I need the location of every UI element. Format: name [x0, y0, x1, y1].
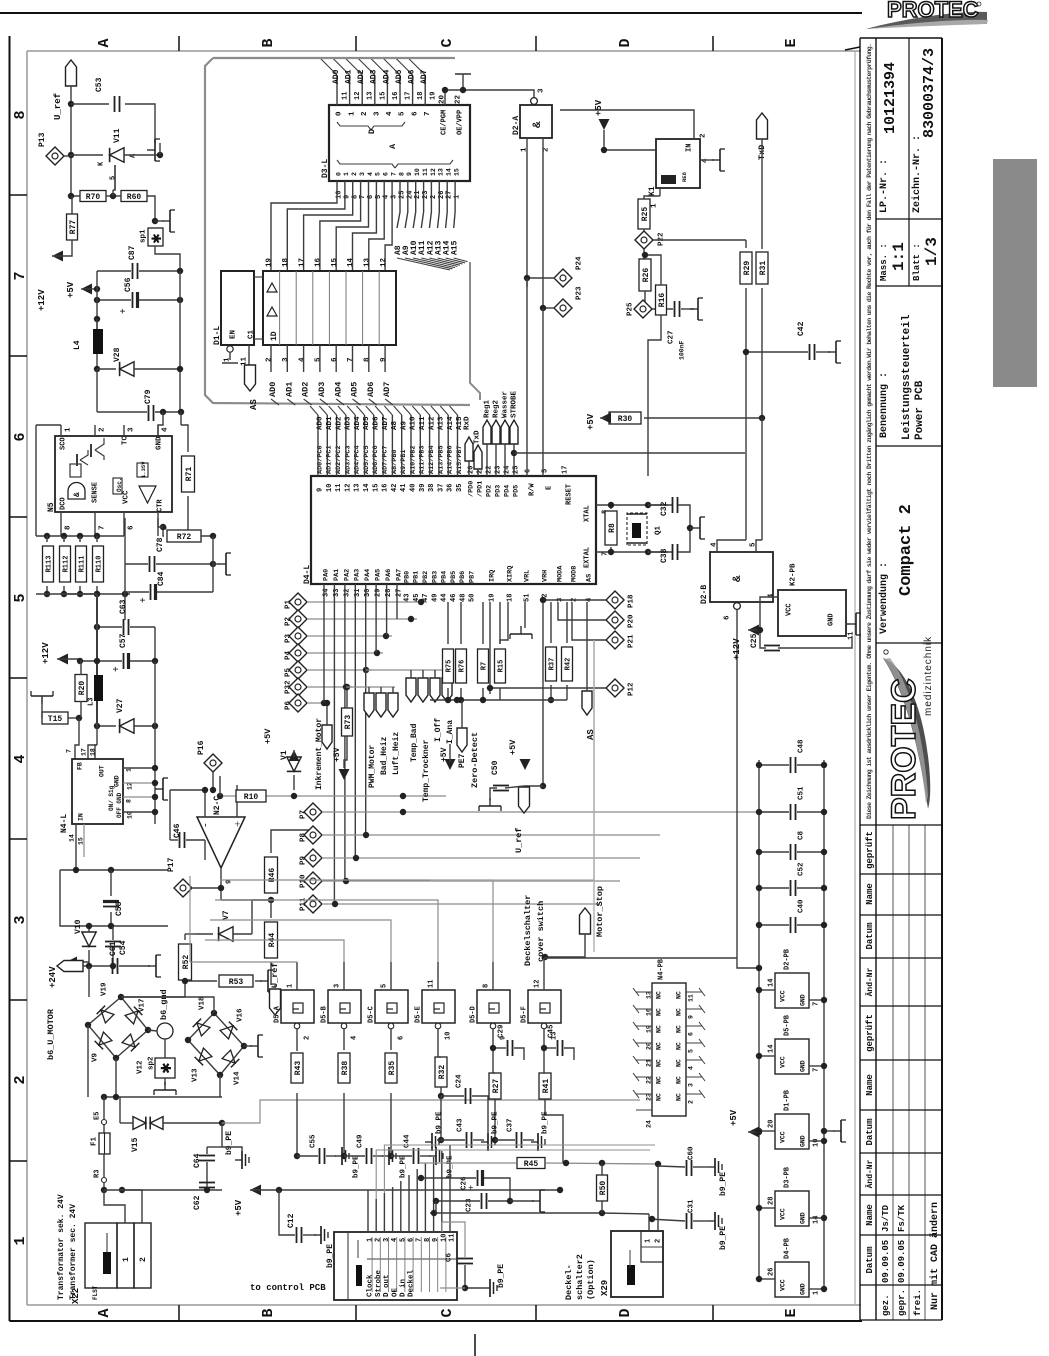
guide	[593, 640, 595, 952]
svg-text:R111: R111	[79, 556, 87, 573]
wire	[482, 688, 484, 700]
wire	[103, 1125, 105, 1133]
wire	[83, 965, 111, 967]
stub	[686, 1042, 702, 1044]
bus entry	[338, 406, 346, 415]
svg-text:2: 2	[687, 1100, 694, 1104]
junction	[152, 765, 158, 771]
svg-text:100nF: 100nF	[678, 340, 685, 360]
test point P8	[304, 826, 322, 844]
wire	[447, 432, 449, 476]
nc tick	[633, 988, 639, 996]
capacitor C48	[791, 757, 796, 773]
test point P23	[554, 299, 572, 317]
ground	[828, 341, 841, 363]
wire	[207, 1146, 222, 1148]
junction	[601, 147, 607, 153]
wire	[745, 288, 747, 540]
svg-text:11: 11	[449, 1234, 457, 1242]
wire	[390, 1029, 392, 1050]
wire rail1	[420, 1162, 516, 1164]
svg-text:AD2: AD2	[301, 382, 311, 397]
svg-text:Temp_Bad: Temp_Bad	[410, 723, 419, 762]
wire P4	[307, 652, 383, 654]
svg-text:AD6: AD6	[408, 69, 417, 84]
w	[296, 1050, 298, 1051]
junction	[291, 793, 297, 799]
junction	[418, 1175, 424, 1181]
wire	[761, 288, 763, 418]
wire	[159, 143, 161, 155]
junction	[344, 684, 350, 690]
resistor R25	[638, 199, 650, 229]
svg-text:13: 13	[364, 257, 372, 267]
svg-text:D5-C: D5-C	[368, 1006, 376, 1023]
svg-text:14: 14	[768, 1045, 776, 1053]
svg-text:&: &	[73, 492, 82, 497]
svg-text:R20: R20	[78, 681, 87, 696]
wire	[419, 432, 421, 476]
wire	[490, 699, 567, 701]
wire	[270, 962, 272, 985]
junction	[492, 1137, 498, 1143]
svg-text:2: 2	[700, 133, 708, 138]
wire	[447, 602, 449, 644]
svg-text:A9: A9	[400, 420, 408, 430]
svg-text:R76: R76	[459, 660, 467, 673]
wire	[96, 271, 98, 329]
svg-text:P2: P2	[285, 616, 293, 626]
wire	[401, 432, 403, 476]
svg-text:D: D	[617, 1308, 634, 1317]
wire	[60, 869, 168, 871]
wire	[693, 1166, 708, 1168]
wire	[603, 130, 605, 150]
wire	[123, 767, 155, 769]
wire	[441, 1151, 443, 1213]
wire	[296, 1093, 298, 1156]
wire RESET	[648, 315, 661, 476]
wire	[736, 610, 738, 962]
wire	[657, 1164, 659, 1231]
capacitor C55	[320, 1148, 325, 1164]
svg-text:26: 26	[768, 1268, 776, 1276]
wire	[106, 195, 121, 197]
wire	[120, 1122, 133, 1124]
junction	[511, 450, 517, 456]
svg-text:DCO: DCO	[60, 497, 68, 510]
svg-text:OFF GND: OFF GND	[116, 792, 123, 818]
wire	[542, 308, 544, 476]
svg-text:22: 22	[455, 94, 463, 104]
bus entry	[353, 399, 361, 405]
svg-text:51: 51	[524, 594, 532, 602]
power arrow +24V	[66, 957, 77, 968]
test point P7	[304, 803, 322, 821]
wire	[416, 1213, 418, 1232]
junction	[241, 1043, 247, 1049]
wire	[524, 785, 543, 787]
svg-text:C42: C42	[797, 321, 806, 336]
svg-text:8: 8	[424, 1238, 432, 1242]
ground	[155, 778, 168, 800]
brace	[337, 122, 371, 130]
divider	[420, 1237, 422, 1292]
net flag	[322, 725, 332, 749]
svg-text:37: 37	[437, 484, 445, 492]
wire P2	[307, 618, 417, 620]
svg-text:C54: C54	[119, 940, 128, 955]
wire	[212, 772, 214, 790]
svg-text:6: 6	[687, 1032, 694, 1036]
wire	[461, 700, 463, 728]
svg-text:10: 10	[414, 168, 421, 176]
svg-text:Reg2: Reg2	[493, 399, 501, 418]
test point P1	[289, 593, 307, 611]
wire	[326, 432, 328, 476]
junction	[61, 533, 67, 539]
svg-text:Reg1: Reg1	[484, 399, 492, 418]
wire P3	[307, 635, 392, 637]
svg-text:PD4: PD4	[503, 485, 511, 497]
svg-text:Temp_Trockner: Temp_Trockner	[422, 739, 431, 802]
junction	[68, 101, 74, 107]
wire	[188, 496, 213, 536]
wire	[75, 824, 77, 870]
svg-text:PB4: PB4	[441, 571, 449, 583]
junction	[152, 658, 158, 664]
svg-text:B: B	[260, 38, 277, 47]
svg-text:geprüft: geprüft	[865, 831, 875, 869]
junction	[433, 1198, 439, 1204]
junction	[687, 525, 693, 531]
junction	[645, 549, 651, 555]
svg-text:SCO: SCO	[60, 437, 68, 450]
wire	[279, 1190, 295, 1235]
junction	[821, 922, 827, 928]
wire	[179, 271, 181, 412]
junction	[442, 87, 448, 93]
svg-text:R77: R77	[69, 220, 78, 235]
svg-text:(Option): (Option)	[586, 1259, 596, 1300]
pin bubble	[490, 1023, 496, 1029]
capacitor	[124, 653, 129, 669]
wire	[60, 593, 97, 595]
nc tick	[633, 1005, 639, 1013]
wire	[110, 870, 112, 896]
svg-text:9: 9	[432, 1238, 440, 1242]
test point P9	[304, 849, 322, 867]
svg-text:AD1: AD1	[345, 69, 354, 84]
test point	[606, 679, 624, 697]
wire Reg2	[495, 444, 497, 476]
wire	[346, 687, 348, 708]
wire	[71, 196, 73, 214]
svg-text:P1: P1	[285, 599, 293, 609]
svg-text:83000374/3: 83000374/3	[921, 48, 938, 138]
flipflop box	[70, 464, 81, 477]
wire	[445, 90, 534, 98]
earth b9_PE	[531, 1133, 545, 1151]
box	[117, 1223, 134, 1288]
ground	[154, 1082, 176, 1095]
lead	[106, 1233, 108, 1252]
svg-text:2: 2	[99, 427, 107, 432]
svg-text:R50: R50	[599, 1181, 608, 1196]
pin bubble	[388, 1023, 394, 1029]
svg-text:K1: K1	[648, 186, 657, 196]
svg-text:AD6: AD6	[373, 416, 381, 430]
test point P4	[289, 644, 307, 662]
capacitor C50	[493, 786, 509, 791]
junction	[110, 963, 116, 969]
svg-text:R72: R72	[177, 533, 192, 542]
wire	[236, 785, 238, 817]
svg-text:13: 13	[367, 92, 375, 100]
wire	[352, 345, 354, 372]
bus entry	[319, 406, 327, 415]
svg-text:8: 8	[65, 525, 73, 530]
wire	[215, 900, 438, 962]
svg-text:C87: C87	[128, 245, 137, 260]
junction	[94, 591, 100, 597]
bus entry	[271, 399, 279, 405]
resistor R8	[605, 511, 617, 545]
wire	[110, 912, 112, 926]
resistor R46	[265, 857, 278, 893]
svg-text:P3: P3	[285, 633, 293, 643]
svg-text:+5V: +5V	[234, 1199, 244, 1216]
svg-text:b9_PE: b9_PE	[353, 1155, 361, 1178]
test point P25	[634, 300, 652, 318]
capacitor	[105, 942, 121, 947]
earth b9_PE	[314, 1226, 328, 1244]
junction	[757, 627, 763, 633]
svg-text:sp1: sp1	[140, 229, 148, 243]
svg-text:Compact 2: Compact 2	[897, 504, 916, 596]
svg-text:C32: C32	[660, 501, 669, 516]
stub	[690, 527, 694, 529]
bridge diode	[195, 1048, 212, 1065]
resistor R26	[639, 259, 651, 291]
capacitor C44	[414, 1148, 419, 1164]
junction	[160, 524, 166, 530]
svg-text:C84: C84	[157, 571, 166, 586]
svg-text:TC: TC	[122, 435, 130, 445]
divider	[641, 1246, 663, 1248]
svg-text:R26: R26	[642, 268, 651, 283]
svg-text:11: 11	[422, 168, 429, 176]
wire A12	[429, 181, 431, 228]
svg-text:10121394: 10121394	[882, 62, 899, 134]
wire A9	[405, 181, 408, 228]
svg-text:3: 3	[128, 427, 136, 432]
wire	[523, 1139, 534, 1141]
wire	[326, 703, 328, 725]
svg-text:R41: R41	[542, 1079, 551, 1094]
stub	[636, 1042, 652, 1044]
svg-text:R37: R37	[549, 658, 557, 671]
svg-text:D out: D out	[383, 1274, 391, 1297]
junction	[210, 787, 216, 793]
svg-text:P25: P25	[627, 302, 635, 316]
wire	[122, 1190, 142, 1223]
wire	[545, 934, 585, 957]
svg-text:4: 4	[367, 172, 374, 176]
wire	[368, 345, 370, 372]
svg-text:2: 2	[375, 1238, 383, 1242]
wire	[139, 299, 180, 301]
wire	[296, 962, 298, 990]
svg-text:K: K	[98, 161, 106, 166]
junction	[821, 1286, 827, 1292]
svg-text:Luft_Heiz: Luft_Heiz	[392, 732, 401, 775]
wire	[103, 1170, 105, 1177]
svg-text:+: +	[118, 308, 129, 314]
junction	[548, 697, 554, 703]
svg-text:+24V: +24V	[48, 966, 58, 988]
svg-text:4: 4	[12, 754, 29, 763]
svg-text:AD5: AD5	[395, 69, 404, 84]
box	[520, 105, 552, 138]
wire	[846, 623, 848, 625]
junction	[480, 697, 486, 703]
svg-text:15: 15	[372, 484, 380, 492]
svg-text:C44: C44	[404, 1134, 412, 1148]
junction	[343, 878, 349, 884]
wire	[566, 685, 568, 700]
wire	[270, 345, 272, 372]
nc tick	[699, 1022, 705, 1030]
svg-text:cover switch: cover switch	[536, 901, 546, 962]
svg-text:VCC: VCC	[786, 603, 794, 616]
junction	[642, 306, 648, 312]
svg-text:TxD: TxD	[474, 430, 482, 444]
divider	[347, 1232, 349, 1300]
stub	[686, 1059, 702, 1061]
svg-text:AD1: AD1	[284, 382, 294, 397]
wire XTAL	[596, 504, 668, 506]
svg-text:PB5: PB5	[450, 571, 458, 583]
test point P11	[304, 895, 322, 913]
junction	[324, 700, 330, 706]
svg-text:Name: Name	[865, 883, 875, 905]
wire	[748, 1131, 759, 1133]
wire STROBE	[513, 444, 515, 476]
junction	[645, 502, 651, 508]
svg-text:PA5: PA5	[375, 569, 383, 581]
wire	[759, 1055, 775, 1057]
svg-text:A: A	[96, 1308, 113, 1317]
test point	[635, 231, 653, 249]
svg-text:P24: P24	[576, 256, 584, 270]
wire	[408, 58, 425, 75]
capacitor	[133, 292, 138, 308]
pin bubble	[294, 1023, 300, 1029]
junction	[94, 591, 100, 597]
svg-text:C57: C57	[119, 633, 128, 648]
nc tick	[699, 1073, 705, 1081]
svg-text:39: 39	[419, 484, 427, 492]
column divider	[312, 271, 314, 345]
wire	[163, 1122, 222, 1124]
bus entry	[336, 399, 344, 405]
svg-text:V16: V16	[237, 1008, 245, 1022]
wire	[336, 432, 338, 476]
notch	[254, 338, 263, 340]
svg-text:36: 36	[447, 484, 455, 492]
svg-text:Änd-Nr: Änd-Nr	[866, 967, 875, 996]
capacitor	[151, 584, 156, 600]
wire	[220, 880, 493, 962]
svg-text:b9_PE: b9_PE	[400, 1155, 408, 1178]
svg-text:3: 3	[687, 1083, 694, 1087]
svg-text:18: 18	[282, 257, 290, 267]
wire	[809, 1288, 824, 1290]
svg-text:1D: 1D	[270, 331, 279, 341]
wire	[119, 1097, 121, 1123]
wire PA7	[396, 584, 398, 619]
junction	[756, 987, 762, 993]
svg-text:R/W: R/W	[529, 483, 537, 496]
svg-text:OE/VPP: OE/VPP	[457, 110, 465, 135]
svg-text:C61: C61	[109, 941, 118, 956]
svg-text:6: 6	[398, 1036, 406, 1040]
svg-text:PB0: PB0	[403, 571, 411, 583]
box	[611, 1231, 663, 1297]
pin 1 bubble	[227, 346, 233, 352]
svg-text:MODB: MODB	[570, 566, 578, 582]
earth b9_PE	[425, 1133, 439, 1151]
wire	[271, 830, 310, 853]
svg-text:D5-PB: D5-PB	[784, 1014, 792, 1036]
net flag Reg2	[492, 420, 500, 444]
termination bar	[455, 73, 471, 75]
test point	[174, 879, 192, 897]
ground	[162, 210, 175, 232]
wire	[412, 75, 414, 105]
svg-text:P20: P20	[628, 614, 636, 628]
svg-text:D in: D in	[400, 1278, 408, 1297]
svg-text:IRQ: IRQ	[488, 570, 496, 582]
wire	[440, 1087, 442, 1096]
wire	[87, 1025, 89, 1097]
svg-text:2: 2	[266, 357, 274, 362]
wire	[345, 415, 347, 432]
wire	[544, 1050, 545, 1073]
comparator	[139, 486, 156, 503]
junction	[211, 1010, 217, 1016]
wire D2-A pin2	[542, 138, 544, 305]
bus entry	[304, 399, 312, 405]
wire	[97, 299, 131, 301]
svg-text:+5V: +5V	[594, 99, 604, 116]
wire	[648, 1214, 650, 1231]
junction	[217, 793, 223, 799]
svg-text:LP.-Nr. :: LP.-Nr. :	[879, 159, 890, 213]
svg-text:13: 13	[354, 484, 362, 492]
tie bar	[222, 362, 238, 364]
svg-text:2: 2	[543, 147, 551, 152]
wire	[130, 626, 155, 628]
junction	[363, 832, 369, 838]
nc tick	[699, 1005, 705, 1013]
junction	[542, 954, 548, 960]
wire	[648, 551, 672, 553]
svg-text:A13: A13	[438, 416, 446, 430]
svg-text:NC: NC	[655, 1042, 662, 1050]
net flag STROBE	[510, 420, 518, 444]
